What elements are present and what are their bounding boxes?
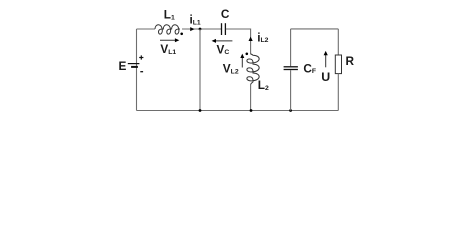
- battery plus sign: [139, 55, 143, 59]
- wire: R branch vertical top: [337, 29, 339, 55]
- svg-text:C: C: [221, 7, 230, 21]
- wire: bottom horizontal: [137, 110, 339, 112]
- svg-text:CF: CF: [303, 61, 316, 75]
- node junction dot top: [199, 28, 202, 31]
- voltage arrow U (points up): [324, 51, 328, 67]
- svg-text:VC: VC: [217, 42, 230, 56]
- junction dot bottom node 2: [250, 109, 253, 112]
- inductor L1: [155, 25, 180, 34]
- svg-text:VL1: VL1: [160, 42, 176, 56]
- inductor L2: [247, 54, 259, 85]
- wire: C_F branch vertical bottom: [290, 70, 292, 110]
- wire: below L2 to bottom: [250, 84, 252, 111]
- current arrow i_L1: [190, 27, 194, 31]
- junction dot bottom node 3: [289, 109, 292, 112]
- battery short thick plate: [131, 66, 138, 68]
- svg-text:iL1: iL1: [190, 13, 201, 27]
- battery source E: left vertical wire: [136, 29, 138, 111]
- svg-text:E: E: [119, 59, 127, 73]
- wire: top segment from C to L2 corner, down to coil: [226, 29, 251, 54]
- current arrow i_L2: [249, 37, 253, 41]
- svg-text:VL2: VL2: [223, 62, 239, 76]
- svg-text:R: R: [346, 54, 355, 68]
- svg-text:L1: L1: [164, 8, 175, 22]
- wire: right loop top: [291, 28, 339, 30]
- wire: top segment from L1 to node: [182, 28, 221, 30]
- wire: top-left horizontal segment: [137, 28, 156, 30]
- svg-text:iL2: iL2: [257, 30, 268, 44]
- voltage arrow V_L2 (points up): [240, 54, 244, 68]
- svg-text:U: U: [321, 70, 330, 84]
- junction dot bottom node 1: [199, 109, 202, 112]
- voltage arrow V_C (points left): [212, 39, 233, 43]
- wire: C_F branch vertical top: [290, 29, 292, 66]
- capacitor C plates: [221, 23, 223, 35]
- capacitor C_F plates: [284, 66, 298, 68]
- polarity dot L2: [246, 53, 249, 56]
- battery long plate: [128, 63, 140, 65]
- battery minus sign: [140, 71, 143, 73]
- voltage arrow V_L1 (points right): [160, 38, 179, 42]
- wire: middle vertical: [199, 29, 201, 111]
- svg-text:L2: L2: [258, 78, 269, 92]
- wire: R branch vertical bottom: [337, 74, 339, 111]
- resistor R body: [335, 55, 341, 74]
- polarity dot L1: [180, 33, 183, 36]
